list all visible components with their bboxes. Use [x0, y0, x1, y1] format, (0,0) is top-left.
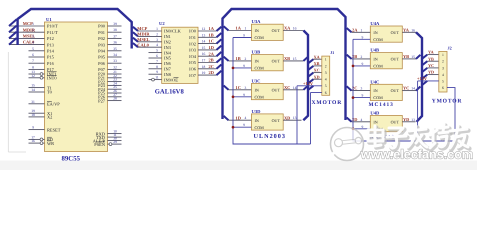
- svg-text:U4D: U4D: [370, 111, 380, 116]
- svg-text:5: 5: [325, 84, 327, 88]
- svg-text:P11/T: P11/T: [47, 30, 58, 35]
- svg-text:WR: WR: [47, 141, 54, 146]
- svg-text:9: 9: [362, 35, 364, 39]
- bus entry 2A to U4: [347, 28, 352, 32]
- wire COM rail U4 to +12V: [353, 39, 455, 141]
- U1 pin 9 stub RESET: [29, 129, 45, 131]
- svg-text:IO6: IO6: [189, 67, 197, 72]
- svg-text:16: 16: [411, 28, 415, 32]
- U1 pin 13 stub INT1: [29, 73, 45, 75]
- bus entry MCP (U1 side): [9, 19, 17, 26]
- svg-text:31: 31: [31, 100, 35, 104]
- svg-text:2: 2: [156, 32, 158, 36]
- svg-text:MSEL: MSEL: [137, 37, 150, 42]
- svg-text:IN4: IN4: [164, 50, 172, 55]
- driver U4D body: [370, 116, 402, 132]
- svg-text:29: 29: [113, 140, 117, 144]
- bus entry 1D to U3: [224, 116, 229, 120]
- svg-text:14: 14: [293, 86, 297, 90]
- svg-text:4: 4: [245, 116, 247, 120]
- svg-text:1: 1: [156, 27, 158, 31]
- inversion bubble pin 29: [109, 143, 112, 146]
- driver U4A body: [370, 26, 402, 42]
- bus entry 2A from U2: [217, 52, 222, 56]
- svg-text:3: 3: [156, 38, 158, 42]
- wire net 2A to U4A IN: [352, 31, 371, 33]
- watermark character fa: [408, 126, 428, 149]
- wire net YD from U4D OUT: [402, 121, 415, 123]
- svg-text:35: 35: [113, 47, 117, 51]
- svg-text:13: 13: [293, 116, 297, 120]
- U1 pin 12 stub INT0: [29, 77, 45, 79]
- svg-text:12: 12: [31, 74, 35, 78]
- wire YB to J2 pin 2: [427, 60, 439, 62]
- svg-text:OUT: OUT: [391, 30, 400, 35]
- svg-text:OUT: OUT: [272, 87, 281, 92]
- svg-text:IN: IN: [255, 87, 259, 92]
- bus entry 1A to U3: [224, 26, 229, 30]
- U2 pin 8 stub: [149, 68, 162, 70]
- bus entry XB to J1: [308, 66, 313, 70]
- junction COM rail U3: [232, 96, 235, 99]
- svg-text:2: 2: [32, 28, 34, 32]
- svg-text:15: 15: [293, 57, 297, 61]
- bus entry 2B to U4: [347, 55, 352, 59]
- bus entry MCP (U2 side): [133, 27, 138, 31]
- svg-text:IN1: IN1: [164, 34, 171, 39]
- svg-text:8: 8: [156, 65, 158, 69]
- watermark character shao: [430, 124, 450, 150]
- svg-text:COM: COM: [373, 37, 383, 42]
- svg-text:9: 9: [243, 64, 245, 68]
- svg-text:X2: X2: [47, 115, 52, 120]
- svg-text:4: 4: [442, 73, 444, 77]
- wire net MDIR to U1 pin 2: [9, 31, 45, 33]
- svg-text:1C: 1C: [236, 85, 241, 90]
- wire COM U3A: [233, 37, 251, 39]
- svg-text:IN0/CLK: IN0/CLK: [164, 29, 182, 34]
- U1 pin 17 stub RD: [29, 138, 45, 140]
- junction COM rail U3: [232, 67, 235, 70]
- inversion bubble U2 pin 11: [152, 78, 155, 81]
- svg-text:1B: 1B: [236, 56, 241, 61]
- svg-text:17: 17: [202, 59, 206, 63]
- svg-text:IN: IN: [373, 30, 377, 35]
- svg-text:14: 14: [31, 88, 35, 92]
- bus Y motor phases: [416, 32, 422, 122]
- bus entry MDIR (U2 side): [133, 32, 138, 36]
- wire YD to J2 pin 4: [427, 74, 439, 76]
- bus entry 1C from U2: [217, 39, 222, 43]
- wire COM U4B: [353, 65, 370, 67]
- wire COM U4A: [353, 38, 370, 40]
- svg-text:IN2: IN2: [164, 40, 171, 45]
- svg-text:T0: T0: [47, 90, 53, 95]
- svg-text:YMOTOR: YMOTOR: [432, 98, 463, 104]
- U1 pin 33 stub P06: [108, 62, 122, 64]
- U1 pin 6 stub: [29, 56, 45, 58]
- svg-text:YD: YD: [403, 117, 409, 122]
- svg-text:18: 18: [31, 113, 35, 117]
- wire net MCP to U1 pin 1: [9, 25, 45, 27]
- junction COM rail U4: [352, 128, 355, 131]
- svg-text:IN: IN: [255, 118, 259, 123]
- svg-text:OUT: OUT: [272, 59, 281, 64]
- svg-text:P01: P01: [98, 30, 105, 35]
- driver U3C body: [251, 84, 283, 100]
- U1 pin 8 stub: [29, 68, 45, 70]
- svg-text:YC: YC: [403, 86, 409, 91]
- svg-text:P12: P12: [47, 36, 54, 41]
- svg-text:IN: IN: [255, 28, 259, 33]
- wire COM U4D: [353, 128, 370, 130]
- svg-text:1: 1: [442, 53, 444, 57]
- U1 pin 29 stub PSEN: [108, 143, 122, 145]
- svg-text:www.elecfans.com: www.elecfans.com: [360, 148, 473, 162]
- U1 pin 14 stub T0: [29, 91, 45, 93]
- watermark character zi: [387, 128, 407, 150]
- svg-text:COM: COM: [373, 95, 383, 100]
- svg-text:P03: P03: [98, 42, 106, 47]
- U2 pin 5 stub: [149, 52, 162, 54]
- wire U2 IO0 to bus, net 1A: [198, 30, 217, 32]
- U1 pin 21 stub P20: [108, 73, 122, 75]
- svg-text:14: 14: [411, 87, 415, 91]
- svg-text:XD: XD: [284, 115, 290, 120]
- svg-text:COM: COM: [255, 125, 265, 130]
- driver U3A body: [251, 24, 283, 40]
- svg-text:2D: 2D: [209, 70, 214, 75]
- U1 pin 35 stub P04: [108, 50, 122, 52]
- inversion bubble pin 17: [40, 138, 43, 141]
- inversion bubble pin 12: [40, 76, 43, 79]
- svg-text:XMOTOR: XMOTOR: [312, 100, 343, 106]
- svg-text:YD: YD: [428, 70, 434, 75]
- wire U2 IO7 to bus, net 2D: [198, 74, 217, 76]
- svg-text:OUT: OUT: [391, 57, 400, 62]
- svg-text:15: 15: [202, 46, 206, 50]
- bus entry 1B from U2: [217, 33, 222, 37]
- wire net CAL0 to U2 pin 4: [138, 46, 162, 48]
- svg-text:U3B: U3B: [252, 50, 261, 55]
- svg-text:4: 4: [361, 118, 363, 122]
- svg-text:YB: YB: [428, 56, 434, 61]
- svg-text:P06: P06: [98, 61, 106, 66]
- bus entry YD to J2: [422, 75, 427, 79]
- svg-text:2: 2: [361, 55, 363, 59]
- svg-text:2B: 2B: [209, 58, 214, 63]
- svg-text:13: 13: [411, 118, 415, 122]
- bus entry 2C from U2: [217, 65, 222, 69]
- connector J1 body: [322, 56, 330, 95]
- svg-text:33: 33: [113, 59, 117, 63]
- bus entry 2B from U2: [217, 58, 222, 62]
- svg-text:2A: 2A: [352, 27, 358, 32]
- U1 pin 25 stub P24: [108, 88, 122, 90]
- wire net 2B to U4B IN: [352, 58, 371, 60]
- svg-text:1B: 1B: [209, 32, 214, 37]
- watermark character dian: [368, 126, 384, 148]
- svg-text:4: 4: [156, 43, 158, 47]
- svg-text:J1: J1: [330, 50, 334, 55]
- svg-text:36: 36: [113, 41, 117, 45]
- wire COM U3C: [233, 96, 251, 98]
- svg-text:U2: U2: [159, 21, 165, 26]
- svg-text:9: 9: [243, 93, 245, 97]
- bus entry 2D from U2: [217, 71, 222, 75]
- wire +12V down (X side): [296, 86, 298, 144]
- connector J2 body: [439, 51, 447, 92]
- svg-text:YB: YB: [403, 54, 409, 59]
- svg-text:2: 2: [325, 64, 327, 68]
- svg-text:IO4: IO4: [189, 54, 197, 59]
- U1 pin 11 stub TXD: [108, 136, 122, 138]
- svg-text:COM: COM: [373, 64, 383, 69]
- bus entry XC to J1: [308, 73, 313, 77]
- svg-text:IO1: IO1: [189, 35, 196, 40]
- wire net MCP to U2 pin 1: [138, 30, 162, 32]
- microcontroller U1 89C55 body: [45, 22, 108, 152]
- svg-text:15: 15: [411, 55, 415, 59]
- svg-text:9: 9: [362, 94, 364, 98]
- svg-text:12: 12: [202, 27, 206, 31]
- svg-text:XB: XB: [314, 61, 320, 66]
- svg-text:1A: 1A: [236, 26, 242, 31]
- svg-text:CAL0: CAL0: [137, 42, 149, 47]
- U2 pin 9 stub: [149, 73, 162, 75]
- svg-text:PSEN: PSEN: [94, 142, 106, 147]
- svg-text:U4A: U4A: [370, 21, 380, 26]
- watermark logo and text www.elecfans.com: [327, 128, 364, 161]
- wire U2 IO2 to bus, net 1C: [198, 43, 217, 45]
- svg-text:XB: XB: [284, 56, 290, 61]
- svg-text:P15: P15: [47, 55, 55, 60]
- svg-text:9: 9: [362, 62, 364, 66]
- svg-text:28: 28: [113, 97, 117, 101]
- U1 pin 16 stub WR: [29, 142, 45, 144]
- bus entry XC: [304, 86, 308, 90]
- svg-text:P05: P05: [98, 55, 106, 60]
- svg-text:IO3: IO3: [189, 48, 197, 53]
- wire COM rail U3 to +12V: [233, 38, 311, 145]
- svg-text:9: 9: [32, 126, 34, 130]
- svg-text:14: 14: [202, 40, 206, 44]
- U2 pin 6 stub: [149, 57, 162, 59]
- svg-text:MDIR: MDIR: [137, 32, 150, 37]
- inversion bubble pin 16: [40, 142, 43, 145]
- svg-text:2: 2: [442, 60, 444, 64]
- wire +12V down 2 (X side): [310, 93, 312, 145]
- wire U2 IO6 to bus, net 2C: [198, 68, 217, 70]
- svg-text:1A: 1A: [209, 26, 215, 31]
- svg-text:IN3: IN3: [164, 45, 172, 50]
- svg-text:4: 4: [32, 41, 34, 45]
- svg-text:YA: YA: [428, 50, 434, 55]
- svg-text:1D: 1D: [236, 115, 241, 120]
- bus entry 1C to U3: [224, 86, 229, 90]
- wire +12V to J2 pin 6: [447, 88, 455, 141]
- U1 pin 39 stub P00: [108, 25, 122, 27]
- svg-text:6: 6: [32, 53, 34, 57]
- U1 pin 28 stub P27: [108, 100, 122, 102]
- svg-text:32: 32: [113, 65, 117, 69]
- svg-text:U1: U1: [46, 17, 52, 22]
- wire net 1C to U3C IN: [229, 89, 252, 91]
- svg-text:IO5: IO5: [189, 60, 197, 65]
- watermark character you: [450, 126, 469, 150]
- wire net YA from U4A OUT: [402, 31, 416, 33]
- wire U2 IO1 to bus, net 1B: [198, 36, 217, 38]
- bus entry YA to J2: [422, 55, 427, 59]
- svg-text:3: 3: [325, 71, 327, 75]
- svg-text:COM: COM: [255, 35, 265, 40]
- U2 pin 11 stub: [149, 79, 162, 81]
- wire net YB from U4B OUT: [402, 58, 416, 60]
- svg-text:5: 5: [442, 80, 444, 84]
- svg-text:6: 6: [156, 54, 158, 58]
- wire +12V down (Y side): [417, 81, 419, 141]
- svg-text:6: 6: [442, 86, 444, 90]
- bus entry CAL0 (U2 side): [133, 43, 138, 47]
- svg-text:2C: 2C: [209, 64, 214, 69]
- wire net 1B to U3B IN: [229, 60, 252, 62]
- U1 pin 18 stub X2: [29, 116, 45, 118]
- svg-text:IO2: IO2: [189, 41, 196, 46]
- wire net CAL0 to U1 pin 4: [9, 44, 45, 46]
- bus entry 2C to U4: [347, 86, 352, 90]
- U1 pin 34 stub P05: [108, 56, 122, 58]
- wire YC to J2 pin 3: [427, 67, 439, 69]
- svg-text:U4B: U4B: [370, 48, 379, 53]
- U2 pin 7 stub: [149, 62, 162, 64]
- U1 pin 26 stub P25: [108, 92, 122, 94]
- U1 pin 32 stub P07: [108, 68, 122, 70]
- U1 pin 22 stub P21: [108, 77, 122, 79]
- svg-text:P16: P16: [47, 61, 55, 66]
- svg-text:P04: P04: [98, 49, 106, 54]
- driver U3D body: [251, 114, 283, 130]
- svg-text:ULN2003: ULN2003: [254, 133, 286, 140]
- svg-text:U3D: U3D: [252, 109, 262, 114]
- svg-text:9: 9: [156, 70, 158, 74]
- bus entry XD to J1: [308, 79, 313, 83]
- bus entry XB: [304, 57, 308, 61]
- U1 pin 38 stub P01: [108, 31, 122, 33]
- svg-text:1D: 1D: [209, 45, 214, 50]
- U1 pin 27 stub P26: [108, 96, 122, 98]
- bus entry +12V to J2 pin 5: [422, 81, 427, 85]
- page background band: [0, 161, 477, 171]
- wire net XB from U3B OUT: [283, 60, 303, 62]
- wire net 2D to U4D IN: [352, 121, 371, 123]
- svg-text:1: 1: [32, 22, 34, 26]
- svg-text:MCP: MCP: [137, 26, 147, 31]
- U1 pin 36 stub P03: [108, 44, 122, 46]
- svg-text:9: 9: [243, 123, 245, 127]
- svg-text:GAL16V8: GAL16V8: [155, 89, 185, 96]
- svg-text:MC1413: MC1413: [369, 102, 394, 108]
- wire net 1A to U3A IN: [229, 30, 252, 32]
- svg-text:19: 19: [202, 71, 206, 75]
- U1 pin 24 stub P23: [108, 84, 122, 86]
- svg-text:9: 9: [362, 125, 364, 129]
- svg-text:18: 18: [202, 65, 206, 69]
- svg-text:YA: YA: [403, 27, 410, 32]
- junction COM rail U4: [352, 96, 355, 99]
- svg-text:U4C: U4C: [370, 79, 379, 84]
- U1 pin 15 stub T1: [29, 87, 45, 89]
- svg-text:6: 6: [325, 91, 327, 95]
- svg-text:1C: 1C: [209, 39, 214, 44]
- svg-text:XA: XA: [284, 26, 291, 31]
- bus entry MSEL (U1 side): [9, 32, 17, 39]
- svg-text:4: 4: [325, 78, 327, 82]
- wire YA to J2 pin 1: [427, 54, 439, 56]
- wire net 2C to U4C IN: [352, 90, 371, 92]
- svg-text:IN6: IN6: [164, 61, 172, 66]
- wire XA to J1 pin 1: [313, 58, 321, 60]
- bus X motor phases: [303, 31, 308, 121]
- bus entry 2D to U4: [347, 118, 352, 122]
- svg-text:3: 3: [361, 87, 363, 91]
- svg-text:P14: P14: [47, 49, 55, 54]
- svg-text:15: 15: [31, 84, 35, 88]
- svg-text:3: 3: [245, 86, 247, 90]
- wire U2 IO4 to bus, net 2A: [198, 55, 217, 57]
- inversion bubble pin 13: [40, 73, 43, 76]
- wire COM U4C: [353, 97, 370, 99]
- svg-text:P10/T: P10/T: [47, 24, 58, 29]
- svg-text:9: 9: [243, 34, 245, 38]
- junction COM rail U4: [352, 65, 355, 68]
- svg-text:IN: IN: [373, 119, 377, 124]
- sheet border (faint): [8, 52, 26, 152]
- bus entry MSEL (U2 side): [133, 38, 138, 42]
- svg-text:J2: J2: [448, 46, 452, 51]
- svg-text:COM: COM: [255, 66, 265, 71]
- svg-text:3: 3: [442, 66, 444, 70]
- svg-text:1: 1: [245, 27, 247, 31]
- wire net XD from U3D OUT: [283, 119, 301, 121]
- bus entry 1B to U3: [224, 57, 229, 61]
- svg-text:5: 5: [32, 47, 34, 51]
- svg-text:3: 3: [32, 34, 34, 38]
- wire net MDIR to U2 pin 2: [138, 35, 162, 37]
- bus entry MDIR (U1 side): [9, 26, 17, 33]
- svg-text:2: 2: [245, 57, 247, 61]
- svg-text:IN: IN: [373, 57, 377, 62]
- svg-text:XC: XC: [284, 85, 290, 90]
- wire net MSEL to U1 pin 3: [9, 37, 45, 39]
- svg-text:7: 7: [156, 59, 158, 63]
- wire U2 IO5 to bus, net 2B: [198, 62, 217, 64]
- svg-text:16: 16: [31, 139, 35, 143]
- svg-text:+12V: +12V: [303, 81, 314, 86]
- U1 pin 19 stub X1: [29, 112, 45, 114]
- bus entry YC: [416, 87, 420, 91]
- svg-text:P02: P02: [98, 36, 105, 41]
- svg-text:7: 7: [32, 59, 34, 63]
- PLD U2 GAL16V8 body: [162, 27, 198, 83]
- driver U3B body: [251, 55, 283, 71]
- svg-text:IO0: IO0: [189, 29, 197, 34]
- svg-text:COM: COM: [255, 94, 265, 99]
- U1 pin 30 stub ALE/P: [108, 140, 122, 142]
- svg-text:11: 11: [155, 76, 159, 80]
- bus entry XA to J1: [308, 59, 313, 63]
- wire +12V to J1 pin 6: [311, 92, 322, 94]
- svg-text:8: 8: [32, 65, 34, 69]
